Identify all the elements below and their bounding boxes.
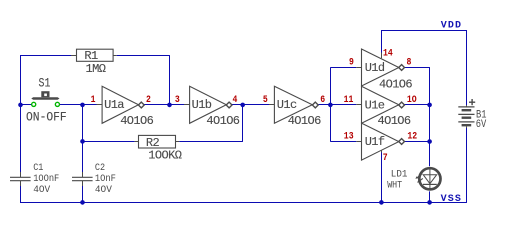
- svg-text:4OV: 4OV: [95, 185, 112, 196]
- svg-text:S1: S1: [39, 76, 51, 91]
- svg-text:4O1O6: 4O1O6: [379, 77, 412, 91]
- svg-text:13: 13: [344, 132, 354, 143]
- svg-text:4OV: 4OV: [33, 185, 50, 196]
- svg-text:4O1O6: 4O1O6: [288, 114, 321, 128]
- svg-text:3: 3: [175, 95, 180, 106]
- svg-text:WHT: WHT: [387, 181, 402, 192]
- svg-text:LD1: LD1: [391, 170, 408, 181]
- svg-text:ON-OFF: ON-OFF: [26, 109, 67, 124]
- svg-text:2: 2: [146, 95, 151, 106]
- svg-text:11: 11: [344, 95, 354, 106]
- svg-text:U1b: U1b: [192, 98, 212, 112]
- svg-text:4O1O6: 4O1O6: [378, 114, 411, 128]
- svg-text:U1a: U1a: [104, 98, 124, 112]
- svg-text:1: 1: [91, 95, 96, 106]
- svg-text:1OOnF: 1OOnF: [33, 174, 59, 185]
- svg-text:5: 5: [263, 95, 268, 106]
- svg-text:VSS: VSS: [441, 194, 462, 205]
- svg-text:1O: 1O: [407, 95, 417, 106]
- svg-text:R1: R1: [84, 49, 98, 63]
- svg-text:9: 9: [349, 58, 354, 69]
- svg-text:1OOKΩ: 1OOKΩ: [148, 149, 181, 163]
- svg-text:6V: 6V: [476, 119, 487, 131]
- svg-text:C1: C1: [33, 163, 43, 174]
- svg-text:12: 12: [407, 132, 417, 143]
- svg-text:4: 4: [233, 95, 238, 106]
- svg-text:VDD: VDD: [441, 20, 462, 31]
- svg-text:U1e: U1e: [365, 99, 385, 113]
- svg-text:14: 14: [383, 48, 393, 59]
- svg-text:C2: C2: [95, 163, 105, 174]
- svg-text:8: 8: [407, 57, 412, 68]
- svg-text:1MΩ: 1MΩ: [86, 62, 106, 76]
- svg-text:U1c: U1c: [277, 98, 297, 112]
- svg-text:7: 7: [383, 153, 388, 164]
- svg-text:1OnF: 1OnF: [95, 174, 116, 185]
- svg-text:U1d: U1d: [365, 61, 385, 75]
- svg-text:4O1O6: 4O1O6: [120, 114, 153, 128]
- svg-text:U1f: U1f: [365, 135, 385, 149]
- svg-text:6: 6: [320, 95, 325, 106]
- svg-text:4O1O6: 4O1O6: [206, 114, 239, 128]
